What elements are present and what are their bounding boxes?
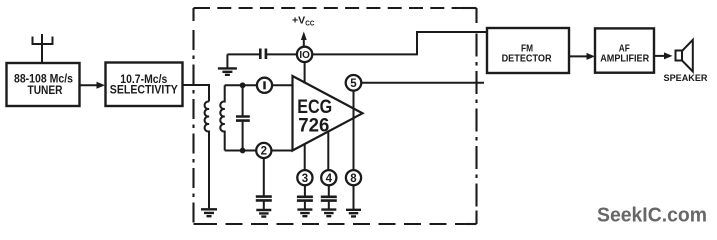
speaker	[676, 40, 693, 72]
pin circle 4	[321, 170, 336, 185]
antenna	[32, 34, 54, 63]
arrowhead into speaker	[664, 52, 673, 59]
wire selectivity to transformer primary	[183, 85, 210, 102]
wire pin 5 to pin 8	[353, 91, 355, 170]
Vcc arrow	[303, 38, 305, 46]
wire pin 10 to FM detector	[312, 32, 487, 54]
pin circle 10	[297, 47, 312, 62]
block AF AMPLIFIER	[595, 28, 654, 72]
wire secondary top to pin 1	[225, 84, 257, 86]
transformer T1 secondary winding	[220, 85, 224, 150]
block FM DETECTOR	[487, 28, 569, 73]
capacitor C2 (Vcc bypass)	[227, 49, 297, 68]
svg-text:726: 726	[298, 116, 329, 137]
Vcc arrowhead	[301, 32, 307, 41]
pin label 1	[263, 81, 265, 89]
svg-text:CC: CC	[305, 19, 315, 28]
wire pin 5 output	[361, 82, 484, 84]
wire pin 10 to op-amp top	[304, 62, 306, 83]
capacitor C1 (tank)	[236, 85, 250, 150]
wire tuner to selectivity	[80, 84, 99, 86]
svg-text:SeekIC.com: SeekIC.com	[597, 204, 707, 227]
svg-text:SELECTIVITY: SELECTIVITY	[110, 83, 178, 97]
block 10.7-Mc/s SELECTIVITY	[106, 63, 183, 107]
pin circle 2	[256, 143, 271, 158]
svg-text:2: 2	[261, 146, 267, 158]
capacitor C4 (pin 3 bypass)	[297, 185, 313, 208]
block 88-108 Mc/s TUNER	[7, 63, 80, 106]
svg-text:5: 5	[350, 78, 357, 90]
pin circle 3	[297, 170, 312, 185]
dashed enclosure	[194, 8, 477, 224]
svg-text:+V: +V	[292, 15, 305, 27]
ground (Vcc bypass)	[218, 68, 237, 74]
svg-text:DETECTOR: DETECTOR	[502, 53, 552, 65]
ground (pin 3)	[297, 210, 312, 217]
svg-text:AMPLIFIER: AMPLIFIER	[600, 53, 649, 65]
wire AF amplifier to speaker	[654, 55, 665, 57]
ground (pin 4)	[321, 210, 336, 217]
wire secondary bottom to pin 2	[225, 150, 257, 152]
pin circle 8	[346, 170, 361, 185]
wire FM detector to AF amplifier	[569, 55, 587, 57]
wire pin 2 to op-amp	[271, 150, 292, 152]
wire pin 8 to ground	[353, 185, 355, 209]
arrowhead into AF amplifier	[587, 53, 596, 60]
pin circle 1	[257, 78, 272, 93]
svg-text:SPEAKER: SPEAKER	[664, 73, 709, 83]
svg-text:8: 8	[350, 173, 357, 185]
+Vcc label	[292, 15, 315, 28]
capacitor C5 (pin 4 bypass)	[321, 185, 337, 208]
ground (under primary)	[201, 209, 217, 216]
node junction top (tank cap)	[240, 82, 246, 88]
transformer T1 primary winding	[205, 101, 209, 208]
wire pin 1 to op-amp	[272, 84, 292, 86]
ground (pin 8)	[346, 210, 361, 217]
svg-text:3: 3	[302, 173, 308, 185]
op-amp U1 ECG 726	[293, 76, 363, 151]
ground (pin 2)	[256, 210, 271, 217]
svg-text:TUNER: TUNER	[28, 83, 63, 97]
svg-text:IO: IO	[299, 49, 310, 61]
wire pin 3 to op-amp	[304, 144, 306, 170]
svg-text:4: 4	[326, 173, 333, 185]
node junction bottom (tank cap)	[240, 148, 246, 154]
arrowhead into selectivity	[97, 82, 106, 89]
wire pin 4 to op-amp	[327, 131, 329, 170]
pin circle 5	[346, 75, 362, 91]
capacitor C3 (pin 2 bypass)	[256, 158, 272, 209]
